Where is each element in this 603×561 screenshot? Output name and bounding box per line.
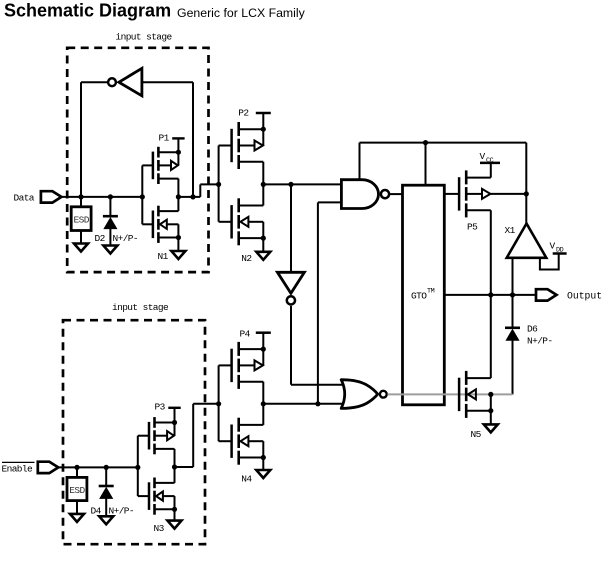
- ground below N1: [171, 235, 185, 259]
- wire N5 bulk: [488, 392, 493, 414]
- transistor P5: [459, 170, 491, 232]
- transistor P2: [232, 107, 264, 169]
- diode D6: [505, 295, 520, 395]
- svg-text:V: V: [480, 151, 486, 162]
- wire X1 input: [525, 194, 527, 224]
- ground below D2: [103, 246, 117, 254]
- wire P1 bulk: [177, 152, 179, 165]
- block GTO: [403, 185, 445, 405]
- wire output line: [444, 292, 536, 297]
- title: [4, 1, 306, 21]
- svg-text:D4: D4: [91, 505, 102, 516]
- transistor N3: [149, 478, 175, 534]
- svg-text:GTO: GTO: [411, 290, 427, 301]
- svg-text:Output: Output: [567, 290, 602, 301]
- svg-text:Data: Data: [14, 193, 35, 204]
- wire top rail to GTO: [425, 143, 427, 186]
- diode D2: [103, 197, 118, 246]
- node Enable junction dots: [74, 465, 140, 470]
- svg-text:N+/P-: N+/P-: [527, 335, 553, 346]
- Data input port: [14, 191, 62, 204]
- wire P1 drain: [176, 179, 181, 200]
- svg-text:X1: X1: [505, 225, 516, 236]
- svg-text:D2: D2: [95, 233, 106, 244]
- supply bar P2: [256, 113, 271, 132]
- nor gate U5: [341, 380, 386, 409]
- wire gate bus 2: [216, 146, 232, 222]
- wire P5 drain down: [490, 210, 492, 378]
- wire X1 output: [512, 258, 514, 295]
- label D6 N+/P-: [527, 323, 553, 346]
- wire N4 drain: [262, 404, 264, 425]
- svg-text:N+/P-: N+/P-: [109, 505, 135, 516]
- node Data junction dots: [78, 194, 144, 199]
- svg-text:ESD: ESD: [74, 215, 90, 226]
- ground below N2: [256, 236, 270, 260]
- svg-text:P4: P4: [240, 328, 251, 339]
- svg-text:P3: P3: [155, 401, 166, 412]
- ground below ESD 2: [70, 501, 84, 522]
- svg-text:TM: TM: [427, 287, 435, 295]
- ground below N3: [168, 507, 182, 529]
- transistor P3: [149, 401, 175, 454]
- wire drain node 1: [178, 184, 218, 199]
- inverter U2 bus-hold feedback: [108, 68, 142, 96]
- wire N1 drain: [177, 197, 179, 211]
- wire N3 drain: [174, 467, 176, 483]
- wire gate bus 3: [138, 436, 149, 496]
- wire NAND input B: [318, 202, 342, 403]
- wire P4 drain: [261, 382, 266, 407]
- svg-text:input stage: input stage: [116, 32, 173, 43]
- diode D4: [99, 467, 114, 516]
- transistor N4: [232, 418, 264, 485]
- wire P4 bulk: [262, 349, 264, 365]
- buffer X1: [505, 224, 547, 258]
- svg-text:N1: N1: [158, 251, 169, 262]
- svg-text:V: V: [550, 240, 556, 251]
- transistor P1: [153, 132, 179, 184]
- svg-text:D6: D6: [527, 323, 538, 334]
- svg-text:Generic for LCX Family: Generic for LCX Family: [177, 6, 306, 20]
- label GTO TM: [411, 287, 435, 301]
- wire P2 drain: [261, 162, 266, 187]
- transistor N2: [232, 198, 264, 264]
- wire N4 bulk: [262, 441, 264, 457]
- Enable input port: [2, 462, 59, 475]
- wire feedback right: [142, 82, 193, 197]
- wire Data line: [61, 196, 142, 198]
- inverter U3 down: [277, 272, 304, 304]
- wire P3 drain: [172, 449, 177, 470]
- svg-text:P5: P5: [467, 221, 478, 232]
- wire feedback left: [81, 82, 108, 197]
- wire P2 bulk: [262, 129, 264, 145]
- wire N3 bulk: [174, 496, 176, 509]
- svg-text:DD: DD: [556, 246, 564, 254]
- input stage 1 label: [116, 32, 173, 43]
- wire NAND output: [389, 193, 402, 195]
- transistor N1: [153, 206, 179, 263]
- ground below N4: [256, 455, 270, 478]
- wire inverter input: [290, 184, 292, 272]
- ground below D4: [99, 516, 113, 524]
- svg-text:Schematic Diagram: Schematic Diagram: [4, 1, 171, 21]
- supply bar P1: [172, 138, 184, 154]
- ESD block 2: [67, 467, 87, 500]
- supply bar P3: [168, 408, 180, 425]
- svg-text:input stage: input stage: [112, 302, 169, 313]
- supply VDD: [540, 240, 567, 269]
- svg-text:P1: P1: [159, 132, 170, 143]
- svg-text:N4: N4: [241, 473, 252, 484]
- svg-text:CC: CC: [486, 157, 494, 165]
- wire gate bus 1: [142, 165, 153, 224]
- label D2 N+/P-: [95, 233, 139, 244]
- label D4 N+/P-: [91, 505, 135, 516]
- svg-text:P2: P2: [238, 107, 249, 118]
- wire drain node 2: [175, 404, 219, 467]
- svg-text:N5: N5: [471, 429, 482, 440]
- wire P5 gate: [444, 193, 459, 195]
- nand gate U4: [341, 180, 389, 209]
- supply bar P4: [256, 333, 271, 352]
- supply VCC: [480, 151, 501, 178]
- wire node A line: [263, 182, 341, 187]
- input stage 2 dashed box: [63, 320, 205, 544]
- input stage 1 dashed box: [67, 48, 208, 272]
- wire NOR output gray: [388, 393, 513, 395]
- transistor P4: [232, 328, 264, 389]
- wire N2 bulk: [262, 222, 264, 238]
- wire gate bus 4: [216, 365, 232, 441]
- ESD block 1: [71, 197, 91, 231]
- svg-text:N2: N2: [241, 253, 252, 264]
- svg-text:ESD: ESD: [69, 485, 85, 496]
- ground below ESD 1: [74, 231, 88, 252]
- svg-text:N+/P-: N+/P-: [113, 233, 139, 244]
- transistor N5: [459, 371, 491, 440]
- svg-text:N3: N3: [154, 523, 165, 534]
- ground below N5: [484, 411, 498, 433]
- wire node B line: [263, 401, 346, 406]
- wire P3 bulk: [174, 423, 176, 436]
- wire Enable line: [58, 466, 138, 468]
- wire N1 bulk: [177, 224, 179, 237]
- wire inverter out to NOR A: [291, 306, 346, 385]
- wire NAND top feedback: [359, 143, 361, 180]
- wire P5 bulk to node: [491, 191, 529, 196]
- Output port: [536, 289, 602, 301]
- svg-text:Enable: Enable: [2, 464, 34, 475]
- wire N2 drain: [262, 184, 264, 205]
- input stage 2 label: [112, 302, 169, 313]
- wire top rail: [360, 140, 527, 194]
